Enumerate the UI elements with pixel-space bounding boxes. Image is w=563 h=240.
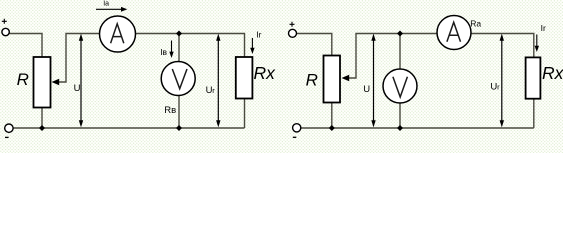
- svg-text:Rx: Rx: [254, 63, 277, 83]
- svg-text:Ir: Ir: [256, 30, 261, 40]
- svg-text:Ia: Ia: [103, 1, 109, 8]
- svg-text:R: R: [17, 70, 29, 89]
- svg-text:Rx: Rx: [542, 63, 563, 83]
- svg-text:Iв: Iв: [160, 47, 167, 57]
- svg-text:U: U: [74, 83, 81, 94]
- svg-text:U: U: [363, 84, 370, 95]
- svg-text:Ra: Ra: [470, 18, 481, 28]
- svg-text:R: R: [306, 71, 318, 90]
- svg-text:Ir: Ir: [541, 23, 546, 33]
- svg-text:Rв: Rв: [164, 105, 176, 116]
